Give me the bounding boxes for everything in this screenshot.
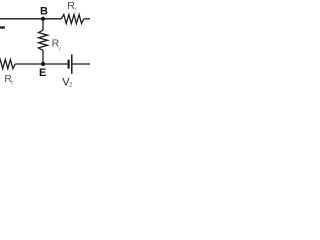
resistor Rz (cut off at left edge) bbox=[0, 60, 15, 69]
resistor Ry bbox=[39, 30, 48, 50]
wire top-right segment bbox=[84, 18, 90, 20]
minus sign at left edge bbox=[0, 26, 5, 28]
battery V2 negative plate bbox=[68, 60, 70, 69]
resistor Rx bbox=[61, 15, 84, 24]
wire from B down to Ry bbox=[42, 19, 44, 30]
svg-text:E: E bbox=[39, 67, 46, 79]
wire bottom from Rz to battery bbox=[15, 63, 68, 65]
node E bbox=[41, 62, 45, 66]
node B bbox=[41, 17, 45, 21]
battery V2 positive plate bbox=[71, 54, 73, 73]
wire from Ry down to E bbox=[42, 50, 44, 64]
svg-text:B: B bbox=[40, 5, 48, 17]
wire bottom-right from battery bbox=[72, 63, 90, 65]
wire top-left segment bbox=[0, 18, 61, 20]
